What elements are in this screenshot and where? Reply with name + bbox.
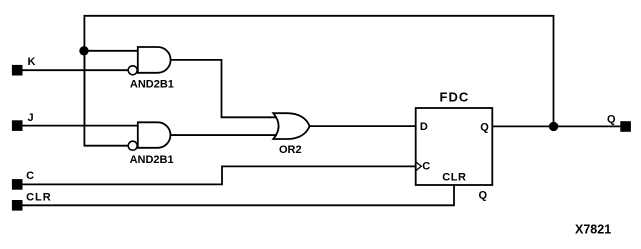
svg-text:D: D (420, 121, 428, 133)
and-gate U1 AND2B1 body (138, 47, 171, 73)
wire C (23, 166, 416, 184)
svg-text:C: C (422, 161, 430, 173)
wire feedback top (84, 16, 553, 127)
and-gate U1 inverted-input bubble (128, 66, 137, 75)
svg-text:Q: Q (479, 190, 488, 202)
junction dot A (feedback to AND1) (79, 46, 88, 55)
svg-text:X7821: X7821 (575, 223, 611, 237)
svg-text:CLR: CLR (442, 171, 466, 183)
terminal C (12, 179, 23, 190)
svg-text:FDC: FDC (440, 90, 470, 105)
terminal K (12, 65, 23, 76)
svg-text:AND2B1: AND2B1 (130, 79, 174, 91)
wire K (23, 69, 129, 71)
svg-text:CLR: CLR (26, 192, 52, 204)
and-gate U2 inverted-input bubble (128, 141, 137, 150)
svg-text:C: C (26, 170, 34, 182)
svg-text:Q: Q (607, 113, 616, 125)
svg-text:AND2B1: AND2B1 (130, 154, 174, 166)
junction dot B (Q output to feedback) (549, 122, 558, 131)
wire AND1 output to OR upper input (171, 60, 277, 117)
terminal CLR (12, 200, 23, 211)
and-gate U2 AND2B1 body (138, 122, 171, 148)
flip-flop U4 FDC box (416, 108, 493, 185)
clock triangle (416, 162, 422, 171)
svg-text:OR2: OR2 (279, 144, 302, 156)
wire OR output to FDC D input (310, 125, 416, 127)
svg-text:K: K (28, 56, 36, 68)
wire feedback left vertical to gate2 bubble (84, 51, 128, 146)
wire CLR (23, 185, 455, 205)
terminal J (12, 120, 23, 131)
wire J (23, 125, 138, 127)
svg-text:Q: Q (480, 122, 489, 134)
terminal Q (620, 121, 631, 132)
svg-text:J: J (28, 112, 34, 124)
or-gate U3 OR2 body (273, 113, 309, 139)
wire AND2 output to OR lower input (171, 134, 278, 136)
wire FDC Q output (492, 125, 620, 127)
wire junction A to AND1 input (84, 50, 138, 52)
